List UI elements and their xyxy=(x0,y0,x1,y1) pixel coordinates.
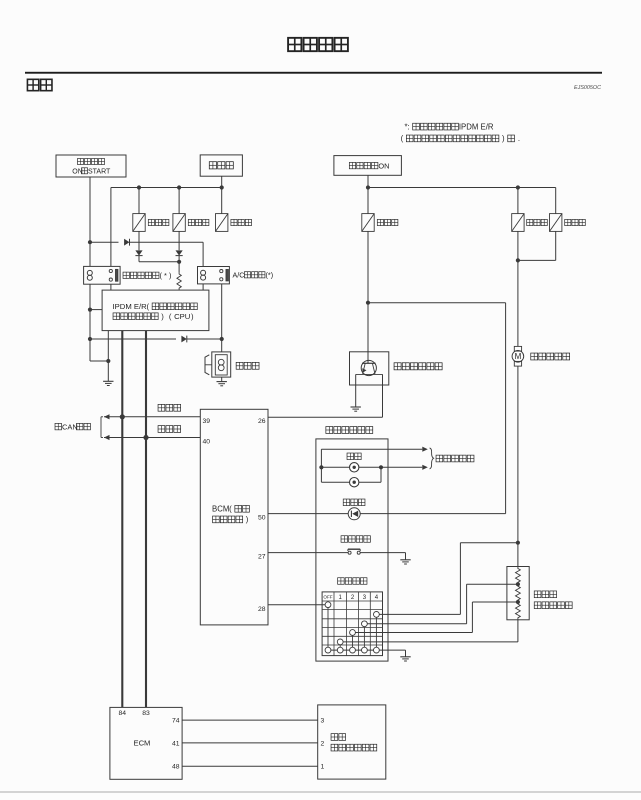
blower fan resistor box xyxy=(507,567,529,620)
fuse F3 label 保险丝 xyxy=(231,219,237,225)
svg-text:1: 1 xyxy=(321,764,325,771)
svg-text:(: ( xyxy=(147,302,150,311)
compressor label 压缩机 xyxy=(236,362,243,369)
illumination label 照明 xyxy=(347,453,354,460)
blower motor M1 xyxy=(514,346,521,351)
wire: BCM pin 28 to fan switch OFF contact xyxy=(268,604,326,606)
svg-text:START: START xyxy=(88,168,111,175)
wire ECM41 - sensor2 xyxy=(182,742,318,744)
ignition relay label 点火继电器（*） xyxy=(123,272,129,278)
svg-text:50: 50 xyxy=(258,515,266,522)
brace to lighting system xyxy=(430,448,434,469)
wire: A/C switch to ground xyxy=(360,552,405,554)
svg-text:ON: ON xyxy=(378,161,389,170)
wire: branch right and down to BCM pin 50 level xyxy=(368,302,506,304)
blower resistor label 鼓风机/风扇电阻器 xyxy=(534,591,541,598)
wire: F6 joins blower feed xyxy=(555,231,557,260)
wire: ignition ON down to fuse F4 xyxy=(367,175,369,213)
compressor clutch symbol xyxy=(212,352,231,377)
svg-text:*:: *: xyxy=(405,122,410,131)
right bus to fuses F5/F6 xyxy=(368,187,556,189)
wire: K2 coil to IPDM top xyxy=(202,284,204,290)
svg-text:(: ( xyxy=(169,312,172,321)
junction of D2 with bus xyxy=(178,256,180,262)
ignition switch ON-or-START box xyxy=(56,155,126,177)
label 至照明系统 xyxy=(436,455,443,462)
svg-text:IPDM E/R: IPDM E/R xyxy=(459,122,494,131)
heater control board box xyxy=(316,439,388,661)
wire: IPDM bottom to ground xyxy=(107,331,109,382)
indicator label 指示器 xyxy=(343,499,350,506)
fan switch speed-2 wire to resistor tap 2 xyxy=(353,632,473,634)
fuse F5 xyxy=(512,214,524,232)
wire: blower motor to resistor xyxy=(517,366,519,566)
svg-text:48: 48 xyxy=(172,764,180,771)
svg-text:( * ): ( * ) xyxy=(160,271,172,280)
wire: ignition switch down to node A xyxy=(89,177,91,266)
fuse F3 under battery xyxy=(216,214,228,232)
svg-text:OFF: OFF xyxy=(323,594,332,599)
wire ECM48 - sensor1 xyxy=(182,765,318,767)
illumination lamp row 1 xyxy=(321,466,422,468)
fan switch label 风扇开关 xyxy=(338,578,345,585)
fan switch contact circles xyxy=(325,602,331,608)
resistor element R2 segment 3 xyxy=(516,602,521,620)
svg-text:39: 39 xyxy=(203,418,211,425)
junction bus-fuse1 xyxy=(137,185,141,189)
svg-text:74: 74 xyxy=(172,718,180,725)
diode D1 xyxy=(135,250,142,255)
svg-text:84: 84 xyxy=(119,710,127,717)
ground under IPDM xyxy=(103,380,113,382)
svg-text:83: 83 xyxy=(142,710,150,717)
resistor element R2 segment 2 xyxy=(516,584,521,602)
wire: bus to fuse F1 xyxy=(138,188,140,214)
wire: compressor to ground xyxy=(221,377,223,382)
svg-text:BCM: BCM xyxy=(212,505,229,514)
svg-text:): ) xyxy=(191,312,194,321)
fan switch speed-3 wire to resistor tap 1 xyxy=(364,623,466,625)
CAN bus line 2 (thick) xyxy=(145,331,147,708)
resistor tap junction 1 xyxy=(516,582,520,586)
page title 故障诊断 xyxy=(288,38,301,51)
page bottom edge xyxy=(0,791,641,793)
section heading 图解 xyxy=(27,79,38,90)
svg-text:40: 40 xyxy=(203,439,211,446)
svg-text:27: 27 xyxy=(258,554,266,561)
svg-text:(*): (*) xyxy=(266,270,274,279)
illumination branch vertical xyxy=(320,449,322,482)
svg-text:41: 41 xyxy=(172,740,180,747)
A/C switch label 空调开关 xyxy=(341,536,348,543)
illumination feed line with arrow to lighting system xyxy=(321,448,422,450)
battery box xyxy=(200,155,242,176)
battery bus horizontal xyxy=(111,187,222,189)
svg-text:M: M xyxy=(515,352,522,361)
lamp L2 xyxy=(350,478,359,487)
wire: K1 coil bottom branch to IPDM left edge xyxy=(89,284,91,361)
junction bus-fuse2 xyxy=(177,185,181,189)
svg-text:): ) xyxy=(161,312,164,321)
thermal control amplifier box xyxy=(350,352,389,385)
svg-text:28: 28 xyxy=(258,606,266,613)
svg-text:3: 3 xyxy=(321,718,325,725)
wire: thermal amp output to BCM pin 26 xyxy=(382,374,384,417)
svg-text:IPDM E/R: IPDM E/R xyxy=(113,302,148,311)
fan switch column stems xyxy=(327,605,329,650)
svg-text:(: ( xyxy=(401,134,404,143)
wire: K1 contact to IPDM top xyxy=(110,284,112,290)
header rule xyxy=(25,72,602,74)
fuse F1 xyxy=(133,214,145,232)
resistor tap junction 2 xyxy=(516,600,520,604)
fuse F2 xyxy=(173,214,185,232)
ground for A/C switch xyxy=(400,559,410,561)
data line to BCM pin 40 xyxy=(104,437,200,439)
ground under thermal amp xyxy=(351,406,361,408)
fuse F6 xyxy=(550,214,562,232)
blower motor label 鼓风机电机 xyxy=(531,353,538,360)
A/C switch S1 xyxy=(348,551,351,554)
ignition relay K1 xyxy=(84,266,121,284)
wire: D1 to diode bus xyxy=(138,256,140,262)
diode bus D1-D2 xyxy=(139,261,179,263)
fan switch S2 table xyxy=(322,592,382,656)
svg-text:CPU: CPU xyxy=(174,312,190,321)
wire ECM74 - sensor3 xyxy=(182,719,318,721)
thermal amp label 热控制放大器 xyxy=(394,363,401,370)
ECM box xyxy=(110,707,182,779)
IPDM E/R box xyxy=(102,290,209,331)
fuse F2 label 保险丝 xyxy=(188,219,194,225)
fuse F1 label 保险丝 xyxy=(148,219,154,225)
ground for fan switch xyxy=(400,656,410,658)
wire: diode bus down to resistor R1 xyxy=(178,262,180,272)
refrigerant pressure sensor box xyxy=(318,705,386,779)
svg-text:): ) xyxy=(502,134,505,143)
node A junction on ignition feed xyxy=(88,240,92,244)
wire: F4 down to thermal amp xyxy=(367,231,369,351)
wire: BCM pin 27 to A/C switch xyxy=(268,552,348,554)
diode D2 xyxy=(176,250,183,255)
svg-text:A/C: A/C xyxy=(233,270,245,279)
lamp L1 xyxy=(350,463,359,472)
wire: F5 down to blower motor xyxy=(517,231,519,346)
to-CAN-system bracket xyxy=(100,417,102,438)
wire: thermal amp emitter to ground xyxy=(355,374,357,407)
wire: jog to IPDM ground line xyxy=(90,360,108,362)
svg-text:(: ( xyxy=(229,505,232,514)
heater control board label 加热器控制板 xyxy=(326,427,333,434)
ignition switch ON box xyxy=(334,156,402,176)
wire: BCM pin 50 line through indicator to feed xyxy=(268,513,506,515)
svg-text:EJS005OC: EJS005OC xyxy=(574,85,601,91)
svg-text:26: 26 xyxy=(258,418,266,425)
svg-text:ECM: ECM xyxy=(134,738,151,747)
wire: bus left end down to ignition relay contact xyxy=(110,188,112,267)
resistor element R2 segment 1 xyxy=(516,567,521,585)
indicator LED xyxy=(348,508,360,520)
wire: fuse F1 to diode D1 xyxy=(138,231,140,250)
thermal amp internal emitter/collector rail xyxy=(356,373,383,375)
svg-text:): ) xyxy=(246,515,249,524)
svg-text:2: 2 xyxy=(321,740,325,747)
fan switch speed-4 wire to blower line xyxy=(376,613,460,615)
label 至CAN系统 xyxy=(55,423,61,429)
BCM body control module box xyxy=(200,409,268,625)
svg-text:CAN: CAN xyxy=(62,422,78,431)
data line to BCM pin 39 xyxy=(104,416,200,418)
CAN bus line 1 (thick) xyxy=(121,331,123,708)
wire: compressor feed line with diode D4 xyxy=(90,338,176,340)
A/C relay K2 xyxy=(198,267,230,284)
fan switch speed-1 wire to resistor bottom xyxy=(340,641,518,643)
resistor R1 inside IPDM feed xyxy=(177,272,181,290)
fan switch common row to ground xyxy=(328,649,406,651)
junction on compressor feed xyxy=(220,337,224,341)
junction K1-coil / compressor diode line xyxy=(88,337,92,341)
fuse F4 xyxy=(362,214,374,232)
illumination lamp row 2 loop xyxy=(321,481,381,483)
ground under compressor xyxy=(217,381,227,383)
wire: A/C relay contact down to compressor xyxy=(221,284,223,352)
wire: fuse F2 to diode D2 xyxy=(178,231,180,250)
transistor Q1 in thermal amp xyxy=(361,360,376,375)
wire: node A to A/C relay coil with series diode D3 xyxy=(90,241,119,243)
wire: battery feed down to fuse F3 xyxy=(221,176,223,213)
junction thermal feed / BCM50 branch xyxy=(366,301,370,305)
junction bus-battery xyxy=(220,185,224,189)
wire: bus to fuse F2 xyxy=(178,188,180,214)
svg-text:.: . xyxy=(518,134,520,143)
